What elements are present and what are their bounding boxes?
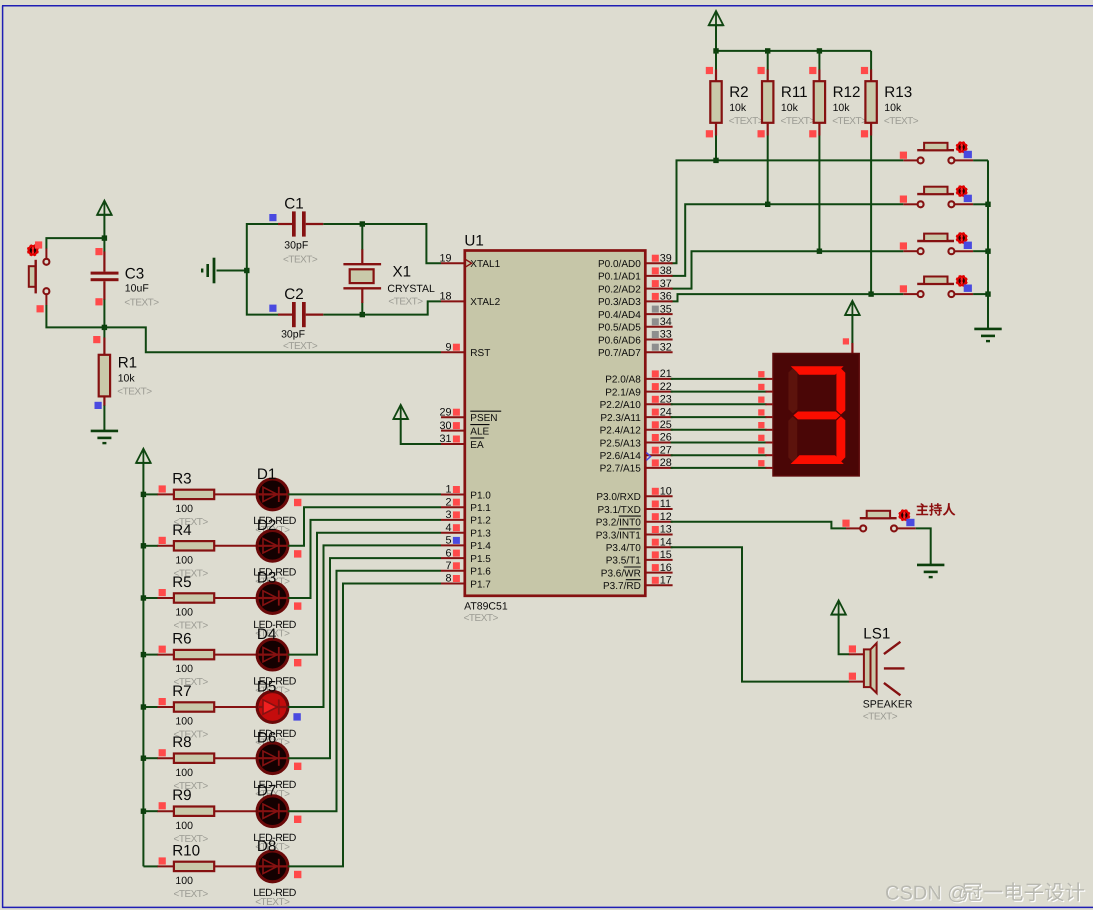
svg-text:30pF: 30pF: [281, 329, 305, 341]
wire: [870, 51, 872, 70]
wire: [143, 706, 158, 708]
svg-text:P3.5/T1: P3.5/T1: [606, 556, 641, 567]
wire: [103, 327, 105, 338]
svg-text:31: 31: [439, 433, 451, 445]
svg-text:RST: RST: [470, 348, 490, 359]
wire: [103, 406, 105, 431]
pin 10 P3.0/RXD: [596, 486, 672, 504]
push button SW1: [900, 142, 973, 164]
node C2/X1 junction: [360, 312, 365, 317]
pin 18 XTAL2: [439, 291, 500, 309]
wire: [362, 301, 441, 314]
push button SW3: [900, 232, 973, 254]
svg-text:30: 30: [439, 420, 451, 432]
wire: [143, 545, 158, 547]
svg-text:10k: 10k: [781, 102, 799, 114]
wire: [671, 522, 846, 529]
node LED rail junction: [141, 704, 146, 709]
svg-text:25: 25: [660, 419, 672, 431]
svg-text:4: 4: [445, 522, 451, 534]
node reset bottom junction: [102, 325, 107, 330]
pin 6 P1.5: [441, 547, 491, 565]
ground (crystal): [202, 258, 214, 284]
wire: [323, 223, 362, 225]
pin 26 P2.5/A13: [600, 432, 673, 450]
svg-text:100: 100: [175, 875, 193, 887]
resistor R1 10k: [93, 336, 152, 409]
svg-text:P2.1/A9: P2.1/A9: [605, 387, 641, 398]
wire: [671, 454, 767, 456]
wire: [715, 136, 717, 161]
wire: [214, 810, 257, 812]
pin 36 P0.3/AD3: [598, 291, 673, 309]
speaker LS1: [863, 626, 913, 723]
svg-text:100: 100: [175, 503, 193, 515]
svg-text:10k: 10k: [884, 102, 902, 114]
svg-text:16: 16: [660, 562, 672, 574]
svg-text:38: 38: [660, 265, 672, 277]
svg-text:R3: R3: [172, 470, 191, 487]
svg-text:R11: R11: [781, 84, 808, 101]
svg-text:10k: 10k: [118, 373, 136, 385]
pin 33 P0.6/AD6: [598, 329, 673, 347]
resistor R11 10k: [758, 67, 816, 137]
svg-text:R4: R4: [172, 522, 191, 539]
svg-text:D6: D6: [257, 730, 276, 747]
svg-text:P0.1/AD1: P0.1/AD1: [598, 272, 641, 283]
svg-text:D5: D5: [257, 678, 276, 695]
svg-text:ALE: ALE: [470, 426, 489, 437]
node resistor-bank rail junctions: [713, 48, 822, 53]
wire: [671, 403, 767, 405]
pin 5 P1.4: [441, 535, 491, 553]
wire: [361, 224, 363, 250]
wire: [851, 315, 853, 344]
svg-text:CRYSTAL: CRYSTAL: [387, 283, 435, 295]
svg-text:P3.6/WR: P3.6/WR: [601, 568, 641, 579]
resistor R9 100: [158, 787, 215, 845]
svg-text:P0.7/AD7: P0.7/AD7: [598, 348, 641, 359]
ground (host button): [917, 565, 944, 577]
node LED rail junction: [141, 809, 146, 814]
svg-text:P3.0/RXD: P3.0/RXD: [596, 492, 640, 503]
node button bus junctions: [985, 202, 990, 297]
node LED rail junction: [141, 652, 146, 657]
power symbol VCC (display): [845, 301, 860, 315]
svg-text:D7: D7: [257, 783, 276, 800]
watermark CSDN: [885, 882, 1085, 905]
svg-text:D3: D3: [257, 569, 276, 586]
svg-text:17: 17: [660, 575, 672, 587]
wire: [214, 706, 257, 708]
wire: [973, 159, 988, 161]
wire: [361, 303, 363, 315]
wire: [288, 520, 441, 598]
7-segment display (digit 3): [773, 354, 859, 476]
svg-text:10: 10: [660, 486, 672, 498]
wire: [214, 654, 257, 656]
wire: [973, 250, 988, 252]
wire: [671, 429, 767, 431]
pin 34 P0.5/AD5: [598, 316, 673, 334]
svg-text:18: 18: [439, 291, 451, 303]
pin 15 P3.5/T1: [606, 549, 673, 567]
svg-text:14: 14: [660, 536, 672, 548]
resistor R12 10k: [809, 67, 867, 137]
svg-text:P1.2: P1.2: [470, 516, 491, 527]
crystal X1: [343, 249, 435, 307]
wire: [288, 533, 441, 655]
svg-text:P3.4/T0: P3.4/T0: [606, 543, 641, 554]
svg-text:<TEXT>: <TEXT>: [283, 254, 318, 265]
resistor R2 10k: [706, 67, 764, 137]
svg-text:P1.1: P1.1: [470, 503, 491, 514]
svg-text:<TEXT>: <TEXT>: [863, 712, 898, 723]
wire: [671, 467, 767, 469]
svg-text:2: 2: [445, 496, 451, 508]
wire: [214, 493, 257, 495]
resistor R10 100: [158, 842, 215, 900]
microcontroller U1 AT89C51: [464, 232, 646, 623]
power symbol VCC (LED ladder): [136, 449, 151, 463]
wire: [767, 136, 769, 205]
pin 14 P3.4/T0: [606, 536, 673, 554]
wire: [671, 251, 904, 288]
svg-text:P2.4/A12: P2.4/A12: [600, 426, 642, 437]
svg-text:23: 23: [660, 394, 672, 406]
capacitor C3 10uF: [91, 248, 160, 308]
svg-text:D1: D1: [257, 466, 276, 483]
svg-text:P1.6: P1.6: [470, 567, 491, 578]
wire: [818, 136, 820, 252]
svg-text:<TEXT>: <TEXT>: [781, 116, 816, 127]
svg-text:P3.2/INT0: P3.2/INT0: [596, 518, 641, 529]
wire: [288, 493, 441, 495]
wire: [143, 757, 158, 759]
svg-text:<TEXT>: <TEXT>: [729, 116, 764, 127]
wire: [671, 204, 904, 276]
svg-text:8: 8: [445, 573, 451, 585]
node resistor-row junctions: [713, 158, 874, 297]
ground (R1): [91, 431, 118, 443]
pin 2 P1.1: [441, 496, 491, 514]
svg-text:11: 11: [660, 498, 671, 510]
svg-text:SPEAKER: SPEAKER: [863, 698, 913, 710]
svg-text:LS1: LS1: [863, 626, 890, 643]
wire: [671, 442, 767, 444]
wire: [214, 865, 257, 867]
svg-text:9: 9: [445, 341, 451, 353]
pin 38 P0.1/AD1: [598, 265, 673, 283]
LED D5 LED-RED: [253, 678, 300, 748]
power symbol VCC (EA): [393, 405, 408, 419]
svg-text:26: 26: [660, 432, 672, 444]
pin 25 P2.4/A12: [600, 419, 673, 437]
svg-text:15: 15: [660, 549, 672, 561]
svg-text:R5: R5: [172, 574, 191, 591]
resistor R5 100: [158, 574, 215, 632]
svg-text:EA: EA: [470, 440, 484, 451]
pin 11 P3.1/TXD: [597, 498, 672, 516]
svg-text:34: 34: [660, 316, 672, 328]
svg-text:1: 1: [445, 484, 451, 496]
svg-text:33: 33: [660, 329, 672, 341]
display segment pin 4: [758, 422, 773, 430]
wire: [362, 224, 441, 263]
svg-text:22: 22: [660, 381, 672, 393]
speaker pin 2: [849, 673, 864, 682]
svg-text:35: 35: [660, 303, 672, 315]
svg-text:27: 27: [660, 444, 672, 456]
svg-text:U1: U1: [464, 232, 483, 249]
pin 19 XTAL1: [439, 252, 500, 270]
pin 30 ALE: [439, 420, 489, 438]
resistor R13 10k: [861, 67, 919, 137]
push button SW2: [900, 186, 973, 208]
wire: [870, 136, 872, 295]
LED D6 LED-RED: [253, 730, 301, 800]
svg-text:C1: C1: [284, 196, 303, 213]
resistor R7 100: [158, 683, 215, 741]
svg-text:10k: 10k: [729, 102, 747, 114]
pin 8 P1.7: [441, 573, 491, 591]
svg-text:P1.3: P1.3: [470, 529, 491, 540]
resistor R8 100: [158, 734, 215, 792]
svg-text:6: 6: [445, 547, 451, 559]
svg-text:<TEXT>: <TEXT>: [464, 613, 499, 624]
svg-text:R7: R7: [172, 683, 191, 700]
wire: [973, 203, 988, 205]
wire: [767, 51, 769, 70]
svg-text:C2: C2: [284, 286, 303, 303]
svg-text:R8: R8: [172, 734, 191, 751]
svg-text:P2.2/A10: P2.2/A10: [600, 400, 642, 411]
wire: [716, 50, 871, 52]
wire: [288, 584, 441, 867]
svg-text:P0.3/AD3: P0.3/AD3: [598, 297, 641, 308]
svg-text:P0.0/AD0: P0.0/AD0: [598, 259, 641, 270]
svg-text:19: 19: [439, 252, 451, 264]
LED D1 LED-RED: [253, 466, 301, 536]
pin 29 PSEN: [439, 406, 501, 424]
pin 35 P0.4/AD4: [598, 303, 673, 321]
svg-text:P0.5/AD5: P0.5/AD5: [598, 323, 641, 334]
wire: [323, 314, 362, 316]
wire: [987, 160, 989, 328]
svg-text:XTAL1: XTAL1: [470, 259, 500, 270]
svg-text:X1: X1: [393, 264, 412, 281]
pin 16 P3.6/WR: [601, 562, 673, 580]
LED D8 LED-RED: [253, 838, 301, 908]
wire: [839, 615, 850, 655]
svg-text:R6: R6: [172, 631, 191, 648]
svg-text:P0.2/AD2: P0.2/AD2: [598, 284, 641, 295]
svg-text:21: 21: [660, 368, 672, 380]
LED D4 LED-RED: [253, 626, 301, 696]
svg-text:7: 7: [445, 560, 451, 572]
wire: [247, 271, 279, 315]
wire: [671, 378, 767, 380]
svg-text:CSDN @: CSDN @: [885, 883, 968, 905]
wire: [142, 463, 144, 867]
ground (button bus): [974, 329, 1001, 341]
svg-text:P2.7/A15: P2.7/A15: [600, 464, 642, 475]
push button (host): [842, 510, 915, 532]
node crystal gnd junction: [244, 268, 249, 273]
display segment pin 7: [758, 460, 773, 468]
wire: [671, 294, 904, 301]
wire: [671, 391, 767, 393]
power symbol VCC (reset): [97, 201, 112, 215]
pin 9 RST: [441, 341, 490, 359]
svg-text:100: 100: [175, 607, 193, 619]
resistor R3 100: [158, 470, 215, 528]
wire: [401, 419, 441, 444]
svg-text:30pF: 30pF: [284, 239, 308, 251]
svg-text:XTAL2: XTAL2: [470, 297, 500, 308]
node LED rail junction: [141, 543, 146, 548]
pin 24 P2.3/A11: [600, 406, 672, 424]
display segment pin 6: [758, 447, 773, 455]
wire: [671, 160, 904, 263]
svg-text:<TEXT>: <TEXT>: [117, 386, 152, 397]
wire: [973, 293, 988, 295]
pin 17 P3.7/RD: [603, 575, 673, 593]
node reset top junction: [102, 235, 107, 240]
svg-text:28: 28: [660, 457, 672, 469]
svg-text:P1.7: P1.7: [470, 579, 491, 590]
svg-text:<TEXT>: <TEXT>: [174, 889, 209, 900]
push button SW4: [900, 275, 973, 297]
pin 31 EA: [439, 433, 484, 451]
pin 22 P2.1/A9: [605, 381, 672, 399]
pin 1 P1.0: [441, 484, 491, 502]
wire: [143, 654, 158, 656]
wire: [288, 558, 441, 758]
svg-text:P3.3/INT1: P3.3/INT1: [596, 530, 641, 541]
svg-text:3: 3: [445, 509, 451, 521]
display power pin: [843, 338, 853, 354]
display segment pin 5: [758, 435, 773, 443]
speaker pin 1: [849, 645, 864, 654]
node LED rail junction: [141, 595, 146, 600]
wire: [818, 51, 820, 70]
wire: [247, 224, 279, 271]
pin 28 P2.7/A15: [600, 457, 673, 475]
svg-text:R2: R2: [729, 84, 748, 101]
svg-text:P0.6/AD6: P0.6/AD6: [598, 335, 641, 346]
svg-text:<TEXT>: <TEXT>: [388, 296, 423, 307]
pin 12 P3.2/INT0: [596, 511, 673, 529]
svg-text:29: 29: [439, 406, 451, 418]
wire: [103, 215, 105, 238]
wire: [288, 507, 441, 546]
pin 7 P1.6: [441, 560, 491, 578]
wire: [288, 545, 441, 707]
wire: [143, 865, 158, 867]
svg-text:PSEN: PSEN: [470, 413, 497, 424]
pin 3 P1.2: [441, 509, 491, 527]
wire: [214, 597, 257, 599]
pin 4 P1.3: [441, 522, 491, 540]
svg-text:R9: R9: [172, 787, 191, 804]
svg-text:D8: D8: [257, 838, 276, 855]
svg-text:100: 100: [175, 820, 193, 832]
wire: [217, 270, 247, 272]
svg-text:37: 37: [660, 278, 672, 290]
pin 21 P2.0/A8: [605, 368, 672, 386]
LED D7 LED-RED: [253, 783, 301, 853]
wire: [214, 757, 257, 759]
svg-text:P2.6/A14: P2.6/A14: [600, 451, 642, 462]
svg-text:P2.3/A11: P2.3/A11: [600, 413, 641, 424]
wire: [214, 545, 257, 547]
svg-text:D2: D2: [257, 517, 276, 534]
resistor R4 100: [158, 522, 215, 580]
svg-text:39: 39: [660, 252, 672, 264]
power symbol VCC (speaker): [831, 600, 846, 614]
svg-text:R13: R13: [884, 84, 912, 101]
wire: [46, 305, 104, 327]
LED D2 LED-RED: [253, 517, 301, 587]
push button (reset): [27, 241, 49, 312]
svg-text:100: 100: [175, 663, 193, 675]
svg-text:<TEXT>: <TEXT>: [283, 341, 318, 352]
pin 39 P0.0/AD0: [598, 252, 673, 270]
resistor R6 100: [158, 631, 215, 689]
wire: [671, 416, 767, 418]
wire: [715, 51, 717, 70]
svg-text:P3.7/RD: P3.7/RD: [603, 581, 641, 592]
svg-text:100: 100: [175, 716, 193, 728]
svg-text:32: 32: [660, 341, 672, 353]
power symbol VCC (resistor bank): [709, 11, 724, 25]
display segment pin 1: [758, 384, 773, 392]
capacitor C2 30pF: [269, 286, 323, 352]
svg-text:P2.0/A8: P2.0/A8: [605, 375, 641, 386]
LED D3 LED-RED: [253, 569, 301, 639]
svg-text:12: 12: [660, 511, 672, 523]
node C1/X1 junction: [360, 221, 365, 226]
svg-text:P2.5/A13: P2.5/A13: [600, 438, 642, 449]
pin 32 P0.7/AD7: [598, 341, 673, 359]
pin 27 P2.6/A14: [600, 444, 673, 462]
pin 37 P0.2/AD2: [598, 278, 673, 296]
svg-text:100: 100: [175, 554, 193, 566]
svg-text:C3: C3: [125, 266, 144, 283]
pin 23 P2.2/A10: [600, 394, 673, 412]
svg-text:R12: R12: [833, 84, 861, 101]
wire: [143, 493, 158, 495]
svg-text:10uF: 10uF: [125, 283, 149, 295]
wire: [46, 238, 104, 249]
wire: [288, 571, 441, 811]
svg-text:R1: R1: [118, 355, 137, 372]
svg-text:13: 13: [660, 524, 672, 536]
wire: [715, 25, 717, 51]
svg-text:P3.1/TXD: P3.1/TXD: [597, 505, 640, 516]
capacitor C1 30pF: [269, 196, 323, 266]
wire: [143, 810, 158, 812]
wire: [671, 547, 850, 681]
svg-text:P1.4: P1.4: [470, 541, 491, 552]
node LED rail junction: [141, 756, 146, 761]
svg-text:100: 100: [175, 767, 193, 779]
wire: [916, 528, 931, 564]
pin 13 P3.3/INT1: [596, 524, 673, 542]
svg-text:<TEXT>: <TEXT>: [255, 897, 290, 908]
svg-text:P0.4/AD4: P0.4/AD4: [598, 310, 641, 321]
